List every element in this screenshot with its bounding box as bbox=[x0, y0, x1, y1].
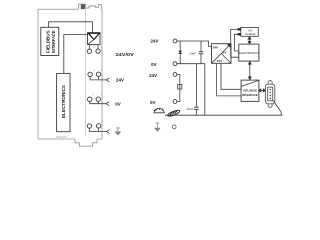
terminal 0V system bbox=[173, 62, 177, 66]
row2 bus wire bbox=[90, 77, 106, 80]
fieldbus interface box (schematic) bbox=[241, 80, 259, 101]
data arrow fieldbus interface to connector bbox=[259, 89, 266, 92]
wire dcdc to fieldbus-interface lower bbox=[217, 63, 242, 96]
twisted pair cable symbol bbox=[167, 109, 180, 117]
svg-text:ELECTRONICS: ELECTRONICS bbox=[239, 51, 260, 55]
svg-text:750-333: 750-333 bbox=[55, 135, 66, 139]
svg-text:modules: modules bbox=[245, 32, 256, 36]
power supply converter U1 (module) bbox=[88, 33, 101, 45]
svg-text:10nF: 10nF bbox=[187, 107, 194, 111]
terminal 0V field bbox=[173, 100, 177, 104]
suppressor diode branch bbox=[179, 41, 181, 64]
connector pins bbox=[269, 89, 271, 100]
module outline (coupler body) bbox=[38, 9, 102, 139]
svg-text:FIELDBUS: FIELDBUS bbox=[46, 30, 51, 53]
wire 5V to I/O modules pin1 and electronics bbox=[231, 29, 239, 57]
module top dark tab bbox=[81, 4, 85, 9]
row2 jumper blade bbox=[106, 78, 109, 82]
svg-text:10nF: 10nF bbox=[189, 51, 196, 55]
capacitor 10nF system bbox=[200, 41, 202, 52]
svg-text:INTERFACE: INTERFACE bbox=[242, 93, 258, 97]
row4 bus wire bbox=[90, 128, 107, 132]
svg-text:24V/0V: 24V/0V bbox=[116, 52, 134, 57]
svg-text:24V: 24V bbox=[116, 77, 124, 82]
fieldbus cable from connector bbox=[273, 101, 281, 116]
dc/dc converter U2 bbox=[212, 44, 232, 64]
svg-text:0V: 0V bbox=[115, 102, 121, 107]
electronics box (module) bbox=[57, 73, 70, 131]
fieldbus cable shield line bbox=[165, 114, 283, 116]
fieldbus interface box (module) bbox=[41, 27, 59, 55]
svg-text:0V: 0V bbox=[150, 100, 156, 105]
fieldbus connector bbox=[265, 81, 274, 108]
wire converter to row1 contacts bbox=[88, 45, 90, 49]
svg-text:24V: 24V bbox=[213, 46, 219, 50]
earth arrow (schematic) bbox=[155, 123, 160, 131]
row4 jumper blade bbox=[106, 130, 109, 134]
row3 clamp contacts 0V bbox=[88, 97, 92, 101]
I/O modules box bbox=[241, 27, 258, 36]
I/O modules pin contacts bbox=[238, 28, 241, 30]
wire to I/O modules pin2 and electronics bbox=[235, 34, 239, 51]
wire dcdc to fieldbus-interface upper bbox=[221, 63, 241, 89]
wire 0V rail down to shield line bbox=[177, 64, 205, 115]
electronics box (schematic) bbox=[239, 44, 260, 61]
row1 clamp contacts 24V/0V bbox=[87, 49, 91, 53]
svg-text:ELECTRONICS: ELECTRONICS bbox=[61, 85, 66, 118]
fuse F1 bbox=[178, 82, 182, 91]
cable shield symbol bbox=[154, 108, 165, 113]
row4 clamp contacts earth bbox=[87, 124, 91, 128]
data bus arrow electronics to fieldbus interface bbox=[248, 62, 251, 80]
wire electronics to converter bbox=[64, 35, 88, 74]
module bottom DIN-rail foot bbox=[75, 139, 97, 146]
shield terminal circle bbox=[172, 125, 176, 129]
row3 jumper blade bbox=[106, 102, 109, 106]
terminal 24V field bbox=[173, 73, 177, 77]
contact strip guide line bbox=[85, 7, 87, 136]
wire fieldbus-interface to converter bbox=[49, 22, 93, 33]
row2 clamp contacts 24V bbox=[88, 72, 92, 76]
module top latch notch bbox=[79, 4, 102, 9]
svg-text:3V3: 3V3 bbox=[217, 59, 222, 63]
svg-text:0V: 0V bbox=[151, 62, 157, 67]
data bus arrow I/O to electronics bbox=[248, 37, 251, 44]
svg-text:INTERFACE: INTERFACE bbox=[51, 30, 56, 53]
svg-text:24V: 24V bbox=[149, 73, 157, 78]
wire 24V rail bbox=[177, 41, 212, 46]
svg-text:24V: 24V bbox=[150, 39, 158, 44]
wire field supply loop bbox=[177, 75, 180, 102]
capacitor 10nF shield bbox=[195, 64, 197, 107]
terminal 24V system bbox=[173, 39, 177, 43]
row3 bus wire bbox=[90, 101, 106, 103]
earth arrow (module) bbox=[115, 128, 120, 135]
